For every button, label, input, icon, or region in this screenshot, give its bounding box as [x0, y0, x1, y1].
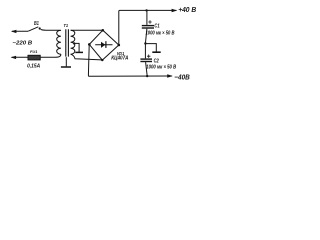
node: bridge top vertex	[102, 29, 105, 32]
fuse FU1 body	[28, 55, 40, 60]
wire: switch to transformer primary	[41, 30, 61, 31]
wire: top AC input lead	[12, 30, 28, 32]
node: bridge bottom vertex	[101, 59, 103, 61]
transformer core lines	[66, 29, 69, 56]
node: bridge right vertex	[118, 44, 121, 47]
svg-text:0,15А: 0,15А	[27, 63, 40, 69]
capacitor C2 bottom plate	[140, 61, 152, 63]
bridge rectifier VD1 diamond	[89, 30, 119, 60]
transformer T1 secondary winding (4 bumps, bulge right)	[71, 30, 75, 54]
input arrow bottom (points left)	[11, 56, 17, 59]
diode cathode bar	[105, 41, 107, 48]
C2 polarity plus	[147, 55, 150, 58]
wire: secondary bottom to bridge bottom vertex	[71, 54, 102, 60]
svg-text:Т1: Т1	[64, 23, 69, 28]
wire: C1 bottom to midpoint junction	[145, 29, 147, 44]
svg-text:+40 В: +40 В	[178, 5, 196, 14]
svg-text:FU1: FU1	[30, 49, 37, 54]
wire: bridge plus output riser and top rail	[119, 10, 177, 45]
transformer core ground stem	[65, 57, 67, 66]
svg-text:КЦ407А: КЦ407А	[111, 55, 129, 61]
wire: bottom AC input lead	[12, 56, 28, 58]
svg-text:С1: С1	[154, 23, 159, 29]
wire: bridge minus output drop and bottom rail	[88, 45, 172, 76]
switch contact dot	[39, 27, 41, 29]
svg-text:~220 В: ~220 В	[12, 41, 32, 47]
node: bridge left vertex	[88, 43, 91, 46]
svg-text:1000 мк × 50 В: 1000 мк × 50 В	[146, 30, 175, 36]
ground bar at centre tap	[75, 51, 83, 53]
diode inside bridge: lead line	[95, 44, 112, 46]
ground bar under core	[61, 66, 71, 68]
wire: secondary top to bridge top vertex	[71, 29, 103, 31]
capacitor C2 top plate	[140, 58, 152, 60]
node: midpoint junction dot	[144, 42, 146, 44]
wire: fuse to transformer primary bottom	[40, 54, 61, 57]
input arrow top (points left)	[11, 30, 17, 33]
secondary centre-tap junction dot	[73, 42, 75, 44]
capacitor C1 bottom plate	[142, 27, 154, 29]
output arrow +40V	[172, 9, 178, 12]
common output bar	[152, 51, 160, 53]
C1 polarity plus	[148, 20, 151, 23]
diode triangle	[101, 42, 105, 48]
svg-text:1000 мк × 50 В: 1000 мк × 50 В	[146, 64, 176, 70]
svg-text:−40В: −40В	[174, 72, 190, 81]
node: top rail junction with C1	[145, 9, 147, 11]
transformer T1 primary winding (4 bumps, bulge left)	[57, 30, 61, 54]
wire: centre tap to ground	[74, 43, 79, 52]
capacitor C1 top plate	[142, 25, 154, 27]
svg-text:В1: В1	[34, 21, 39, 27]
wire: C2 bottom to minus rail	[146, 62, 148, 76]
node: bottom rail junction with C2	[146, 75, 148, 77]
switch SA1 lever	[28, 27, 38, 31]
output arrow -40V	[167, 74, 173, 77]
wire: top rail to C1	[146, 10, 148, 25]
wire: common output zigzag	[145, 44, 156, 52]
wire: midpoint junction down to C2	[144, 44, 146, 59]
